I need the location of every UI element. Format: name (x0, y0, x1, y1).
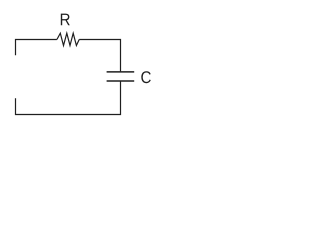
label C (141, 71, 151, 83)
wire: resistor to top-right corner and down to capacitor top plate (79, 40, 120, 72)
label R (61, 14, 70, 26)
wire: capacitor bottom plate to bottom-right corner, bottom return wire, bottom-left input terminal stub (16, 82, 121, 115)
wire: top-left input terminal stub and top-left corner to resistor (16, 40, 57, 56)
capacitor C bottom plate (107, 80, 135, 82)
capacitor C top plate (107, 71, 135, 73)
resistor R (57, 33, 79, 45)
